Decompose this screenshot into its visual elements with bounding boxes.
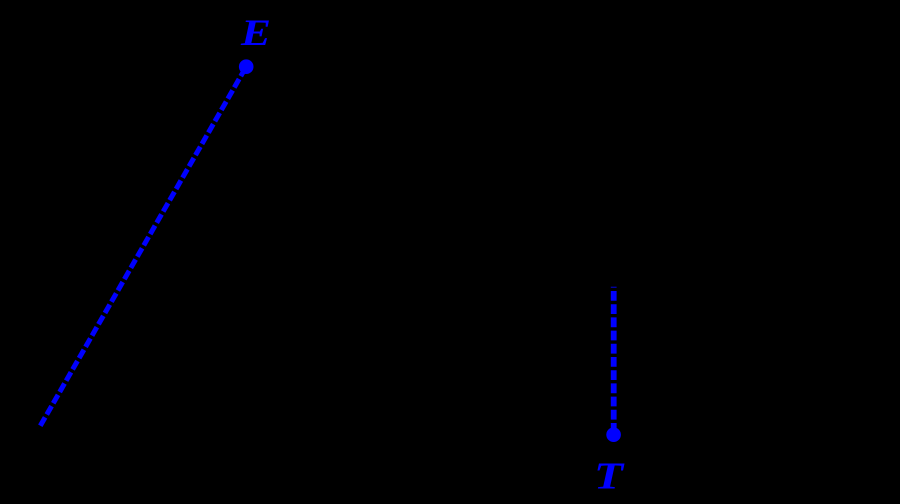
svg-text:E: E (240, 13, 271, 54)
node E: dot (239, 59, 254, 74)
wire: dashed segment from E to lower-left (40, 67, 246, 426)
svg-text:T: T (594, 455, 625, 497)
node T: dot (606, 427, 621, 442)
wire: vertical dashed segment above T (611, 287, 617, 435)
